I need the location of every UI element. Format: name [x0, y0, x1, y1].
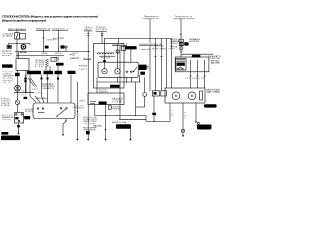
fuse X — [179, 43, 183, 46]
svg-text:ПРОВОДКИ: ПРОВОДКИ — [112, 100, 122, 102]
svg-text:(см. схему: (см. схему — [83, 123, 95, 125]
text right small — [25, 108, 34, 113]
wire from L1 — [16, 31, 18, 33]
label left of switch — [2, 115, 14, 121]
dark label below — [110, 85, 120, 88]
wires from bars 3-4 to control box — [57, 74, 59, 103]
fan diagonals into control box — [30, 96, 44, 103]
motor M1 circle — [102, 69, 107, 74]
svg-text:РЕЛЕ ОЧИСТ.: РЕЛЕ ОЧИСТ. — [211, 61, 221, 63]
control rounded box — [33, 103, 75, 119]
bus label L2 — [36, 28, 50, 30]
svg-text:МОТОР: МОТОР — [99, 90, 106, 92]
comp on center wire — [86, 131, 90, 134]
bus label L1 ЗАМОК ЗАЖИГАНИЯ — [8, 28, 27, 31]
rear wiper motor M2 box — [165, 88, 205, 103]
wire from header H1 down to L5 — [149, 19, 151, 43]
wires below motor box — [169, 103, 171, 122]
black label left — [2, 64, 13, 67]
dark label right of switch — [24, 116, 30, 119]
labels right of control box — [77, 105, 85, 109]
connector C1 dark ring — [21, 44, 30, 50]
label right of relay — [211, 61, 221, 65]
bus label L4 — [112, 44, 127, 46]
wire above L4 — [117, 39, 119, 44]
svg-text:ОЧИСТИТЕЛЯ: ОЧИСТИТЕЛЯ — [189, 41, 199, 43]
stub from washer box — [24, 116, 29, 118]
svg-text:СТЕКЛО-: СТЕКЛО- — [3, 74, 13, 76]
wire to circle comp — [144, 77, 146, 92]
svg-text:ПЕРЕКЛЮЧ.: ПЕРЕКЛЮЧ. — [42, 84, 55, 86]
internal element — [200, 91, 203, 100]
svg-text:ЗЕЛ: ЗЕЛ — [185, 78, 190, 80]
black bar label right — [204, 104, 217, 107]
svg-text:ЖЕЛТ: ЖЕЛТ — [32, 89, 38, 91]
tick labels on those wires — [185, 76, 206, 80]
horizontals bottom center — [95, 115, 146, 117]
svg-text:ОЧИСТИТ.: ОЧИСТИТ. — [1, 103, 12, 105]
svg-text:ОЧИСТИТ: ОЧИСТИТ — [77, 107, 85, 109]
right component stack: wire from H2 — [180, 19, 182, 57]
svg-text:(см. схему: (см. схему — [3, 78, 13, 80]
label + black bar center bottom — [112, 121, 131, 129]
small black mark — [1, 132, 8, 135]
tiny wire labels below motor box — [171, 110, 186, 118]
svg-text:ПРЕРЫВ: ПРЕРЫВ — [79, 66, 87, 68]
relay internals — [176, 58, 186, 70]
outer wiper assembly box — [94, 44, 125, 89]
wire from hatch down — [139, 75, 141, 82]
tick boxes on wires — [41, 78, 60, 80]
text block bottom center — [83, 116, 102, 131]
circle component C5 — [143, 93, 147, 97]
relay hatch cluster right outside box — [139, 65, 149, 75]
svg-text:БЛОК РЕЛЕ: БЛОК РЕЛЕ — [96, 29, 107, 31]
svg-text:OFF ВЫКЛ: OFF ВЫКЛ — [35, 60, 44, 62]
wire down from switch — [18, 123, 20, 134]
ticks on bus — [70, 53, 75, 56]
tick component on L3 wire — [53, 38, 64, 41]
wire below fuse — [16, 39, 18, 44]
svg-text:ЗЕЛ: ЗЕЛ — [72, 107, 76, 109]
svg-text:ЧЕРН: ЧЕРН — [169, 48, 175, 50]
inside box X marks — [90, 97, 123, 105]
svg-text:ОЧИСТИТЕЛЯ: ОЧИСТИТЕЛЯ — [3, 76, 15, 78]
connector pins cluster inside — [97, 53, 115, 60]
label: fuse name — [3, 33, 14, 38]
relay U1 box top right — [175, 57, 209, 72]
small component boxes left of motor box — [152, 91, 166, 96]
small comp on left wire — [15, 73, 20, 76]
horizontal y93 — [14, 92, 34, 94]
svg-text:ЧЕРН: ЧЕРН — [79, 101, 84, 103]
svg-text:питания): питания) — [2, 55, 11, 57]
wires below left relay box — [17, 71, 19, 101]
big black bar bottom left — [1, 136, 20, 141]
dark bar label ПРЕРЫВАТЕЛЬ — [121, 46, 149, 62]
connector circle crossed — [15, 85, 21, 91]
svg-text:ЖЕЛТ: ЖЕЛТ — [60, 38, 64, 40]
svg-text:INT ПРЕР: INT ПРЕР — [35, 62, 44, 64]
riser and horizontal to motor ground wire — [146, 116, 170, 122]
svg-text:СТЕКЛО-: СТЕКЛО- — [1, 101, 11, 103]
svg-text:ОЧИСТИТЕЛЯ И: ОЧИСТИТЕЛЯ И — [42, 86, 55, 88]
connector box X — [88, 93, 124, 105]
svg-text:(насос): (насос) — [2, 119, 11, 121]
dark mark left mid — [54, 57, 60, 61]
tick box on wire — [116, 50, 119, 53]
labels right of stack — [189, 38, 200, 43]
bus label L3 — [52, 28, 68, 30]
connector blob on L3 wire — [61, 45, 68, 51]
dark blob left of fan — [24, 97, 28, 99]
labels left of stack — [170, 39, 179, 49]
svg-text:КРС: КРС — [22, 95, 27, 97]
comb wires right top — [155, 39, 157, 92]
label left small box — [7, 45, 12, 48]
text block left mid — [3, 71, 15, 84]
label right of motor box — [207, 90, 222, 94]
wire x104.5 into motor unit — [104, 44, 106, 69]
fourth dark bar — [68, 71, 76, 74]
wire down from bar — [129, 129, 131, 140]
bus label L3b — [96, 27, 107, 31]
svg-text:ОЧИСТИТ: ОЧИСТИТ — [70, 58, 79, 60]
svg-text:ПРЕДОХР.: ПРЕДОХР. — [96, 27, 107, 29]
switch contacts inside motor unit — [126, 67, 137, 72]
svg-text:предыдущей страницы: предыдущей страницы — [173, 17, 195, 20]
svg-text:ЧЕР: ЧЕР — [199, 78, 204, 80]
bus label L3a ЗАМОК — [84, 26, 93, 31]
diagonal wires — [28, 78, 37, 87]
dark wire labels mid — [70, 58, 92, 61]
bus label L5 — [139, 43, 161, 46]
text left — [99, 90, 109, 94]
wire right from stack bottom — [181, 53, 213, 55]
svg-text:МОТОР ОЧИСТ.: МОТОР ОЧИСТ. — [207, 90, 222, 92]
labels above control box — [72, 101, 84, 110]
switch contacts — [46, 59, 49, 67]
svg-text:ПРОВОД: ПРОВОД — [113, 108, 120, 110]
small component on that wire — [103, 60, 106, 62]
tick labels on comb — [152, 46, 175, 57]
dark blob label — [56, 63, 64, 66]
marks cluster — [22, 89, 42, 97]
text block bottom left — [1, 99, 12, 107]
long center wire — [87, 31, 89, 140]
wire from L3b — [101, 31, 103, 43]
svg-text:(см. схему: (см. схему — [2, 53, 12, 55]
wires relay to motor box — [190, 72, 192, 88]
wires from switch contacts to bars — [45, 67, 47, 71]
circle component — [180, 47, 183, 50]
svg-text:И ОМЫВ.: И ОМЫВ. — [1, 105, 11, 107]
svg-text:LO НИЗК: LO НИЗК — [35, 64, 44, 66]
svg-text:ЗЕЛЕН: ЗЕЛЕН — [152, 48, 158, 50]
svg-text:стр. 83: стр. 83 — [3, 82, 11, 84]
svg-text:(Модели без двойного кондицион: (Модели без двойного кондиционера) — [2, 19, 46, 23]
three dark bars — [27, 71, 41, 75]
connector circle on left col — [15, 100, 20, 105]
dark blob right of fuse — [184, 42, 188, 45]
fuse F1 box — [14, 33, 25, 39]
dark label under wire — [192, 55, 200, 58]
node junction at y43.5 — [9, 43, 31, 45]
small box component — [179, 39, 183, 42]
small box right of contacts — [51, 57, 57, 61]
wire from L2 — [43, 30, 45, 51]
connector blob on L2 wire — [45, 39, 54, 49]
bus y55.5 — [16, 55, 64, 57]
circle 2 inside — [115, 69, 120, 74]
wiper switch cluster: text block — [35, 60, 45, 68]
wire below control box — [63, 119, 66, 136]
wire from L5 to right riser — [149, 46, 151, 91]
relay internal pins — [190, 60, 192, 72]
svg-text:ЖЕЛТ: ЖЕЛТ — [72, 53, 78, 55]
svg-text:СИН: СИН — [36, 93, 42, 95]
wires below motor unit — [117, 77, 119, 82]
svg-text:КУЗОВЕ ОКОЛО: КУЗОВЕ ОКОЛО — [83, 119, 98, 121]
left relay box — [16, 59, 29, 71]
label text block left — [2, 50, 12, 57]
wiper motor unit M1 box — [98, 62, 138, 77]
svg-text:ОЧИСТ: ОЧИСТ — [79, 69, 87, 71]
washer switch box S2 — [15, 113, 24, 124]
svg-text:ПРОВОД: ПРОВОД — [25, 111, 33, 113]
ground blob bottom right — [197, 122, 212, 129]
svg-text:M: M — [191, 94, 194, 98]
bus below motor unit — [97, 81, 140, 83]
horizontal bus y=38.5 top right — [105, 39, 172, 44]
svg-text:ЗЕЛ: ЗЕЛ — [22, 90, 27, 92]
svg-text:ПЕРЕКЛ.: ПЕРЕКЛ. — [1, 99, 11, 101]
svg-text:ВЫКЛЮЧ.: ВЫКЛЮЧ. — [170, 39, 179, 41]
tiny labels near center wire — [79, 66, 87, 71]
svg-text:HI ВЫС: HI ВЫС — [35, 66, 45, 68]
wire from L4 down — [119, 46, 121, 120]
jog horizontal — [136, 106, 145, 108]
svg-text:следующей стр.: следующей стр. — [143, 17, 160, 20]
motor circle 2 — [188, 92, 196, 100]
tiny labels under bus — [41, 52, 78, 55]
svg-text:питания): питания) — [3, 80, 13, 82]
wires below bars — [25, 74, 27, 92]
switch inside control box — [37, 108, 67, 117]
wire circle to washer switch — [17, 105, 19, 113]
svg-text:СИН: СИН — [192, 78, 197, 80]
label left with pointer — [108, 105, 120, 110]
svg-text:СТЕКЛА: СТЕКЛА — [209, 57, 221, 60]
ticks on center wire — [87, 34, 89, 36]
wire from L3 — [57, 30, 59, 51]
wires below box X — [105, 105, 107, 141]
motor circle 1 — [172, 92, 180, 100]
svg-text:МОТОР: МОТОР — [2, 115, 12, 117]
svg-text:M: M — [175, 94, 178, 98]
label block over wires — [42, 84, 55, 90]
wire pair down left — [16, 44, 18, 59]
bottom center wires — [76, 82, 78, 140]
small squares on wire — [24, 78, 26, 83]
bus y51.5 — [15, 51, 90, 53]
